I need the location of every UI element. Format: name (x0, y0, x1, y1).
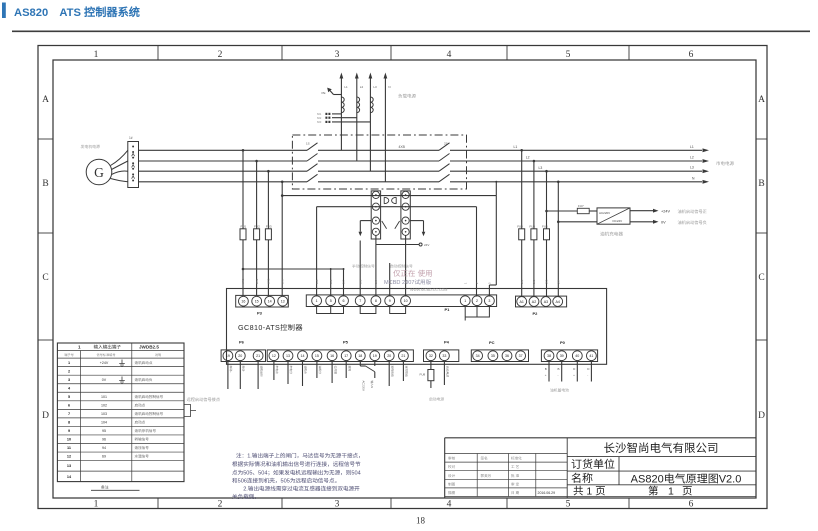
svg-text:-: - (587, 373, 588, 377)
wire coil rail 2 (317, 206, 477, 208)
svg-text:L2: L2 (690, 155, 694, 160)
svg-text:103: 103 (101, 412, 107, 417)
svg-text:39: 39 (560, 354, 564, 359)
svg-text:转输信号: 转输信号 (135, 437, 150, 443)
svg-text:B: B (758, 179, 764, 189)
svg-text:13: 13 (286, 354, 290, 359)
svg-text:32: 32 (429, 354, 433, 359)
converter U1 AC/DC (597, 208, 630, 224)
contactor KM1 terminal block (371, 191, 380, 239)
svg-text:6: 6 (68, 403, 70, 408)
wire gen L1 aux tap (243, 268, 344, 270)
svg-text:手动控制信号: 手动控制信号 (352, 264, 375, 270)
svg-text:AC220V: AC220V (362, 381, 366, 392)
svg-text:日 期: 日 期 (511, 491, 520, 496)
svg-text:A1: A1 (519, 300, 523, 305)
svg-text:96: 96 (102, 438, 106, 443)
wire mains bus to right arrows (450, 149, 702, 151)
wire mains neutral drop (557, 182, 559, 297)
PE arrow top-left (334, 94, 342, 96)
svg-text:GC810-ATS控制器: GC810-ATS控制器 (238, 323, 303, 333)
svg-text:36: 36 (505, 354, 509, 359)
wire N to P1-3' (495, 196, 497, 285)
svg-text:18: 18 (416, 516, 426, 526)
svg-text:7: 7 (68, 412, 70, 417)
svg-text:4XB: 4XB (399, 144, 406, 149)
svg-text:106: 106 (329, 279, 333, 284)
fuse FU8 (428, 370, 434, 381)
svg-text:端子号: 端子号 (64, 352, 74, 357)
svg-text:工 艺: 工 艺 (511, 464, 520, 470)
wire P0 outputs (548, 362, 550, 382)
svg-text:2016.06.29: 2016.06.29 (538, 491, 556, 496)
inductor coils (CT) on feeder (341, 97, 344, 113)
wire KM1 left tap with arrow (360, 220, 371, 222)
wire to P1-8 (375, 245, 377, 297)
svg-text:市电合: 市电合 (275, 366, 279, 375)
arrow feeder up (369, 73, 373, 79)
terminal strip P5 (267, 350, 413, 362)
svg-text:12: 12 (272, 354, 276, 359)
arrow feeder up (384, 73, 388, 79)
svg-text:FU1: FU1 (241, 224, 247, 228)
switch QS2 blades (mains side) (439, 143, 450, 151)
svg-text:40: 40 (575, 354, 579, 359)
svg-text:A4: A4 (555, 300, 559, 305)
svg-text:A3: A3 (544, 300, 548, 305)
svg-text:共 1 页: 共 1 页 (573, 484, 606, 499)
svg-text:102: 102 (101, 403, 107, 408)
svg-text:FU4: FU4 (517, 224, 523, 228)
svg-text:38: 38 (547, 354, 551, 359)
svg-text:10: 10 (404, 299, 408, 304)
svg-text:33: 33 (442, 354, 446, 359)
svg-text:JWDB2.5: JWDB2.5 (139, 345, 159, 351)
svg-text:6: 6 (689, 499, 694, 509)
svg-text:-: - (558, 373, 559, 377)
svg-text:94: 94 (102, 446, 106, 451)
svg-text:L2: L2 (526, 155, 530, 160)
fuse FU1 (240, 229, 246, 240)
svg-text:制图: 制图 (448, 482, 456, 487)
svg-text:109: 109 (374, 279, 378, 284)
svg-text:AC220V: AC220V (599, 211, 610, 215)
svg-text:105: 105 (315, 279, 319, 284)
svg-text:油机启动控制信号: 油机启动控制信号 (135, 411, 164, 417)
svg-text:9: 9 (68, 429, 70, 434)
svg-text:19: 19 (226, 354, 230, 359)
svg-text:WWW.MCBD-CC.COM: WWW.MCBD-CC.COM (410, 288, 447, 293)
svg-text:油机启动负: 油机启动负 (135, 377, 153, 383)
wire CT secondary taps (332, 113, 341, 115)
svg-text:PC: PC (489, 340, 495, 346)
ground symbol rows 1-2 (119, 360, 125, 367)
svg-text:11: 11 (67, 446, 71, 451)
wire charger 0V output (630, 221, 653, 223)
svg-text:P3: P3 (257, 310, 263, 316)
svg-text:L1: L1 (344, 85, 348, 89)
node charger L tap (545, 210, 548, 213)
coil KM2 (392, 197, 397, 203)
wire to terminal P1-1 (316, 207, 318, 297)
svg-text:A: A (42, 95, 49, 105)
svg-text:批 准: 批 准 (511, 473, 520, 479)
svg-text:PE: PE (322, 91, 326, 95)
svg-text:故障: 故障 (347, 366, 351, 372)
svg-text:C: C (758, 273, 764, 283)
svg-text:1: 1 (94, 50, 99, 60)
wire to P1-7 (359, 241, 361, 297)
svg-text:1: 1 (68, 361, 70, 366)
wire charger L input (547, 210, 578, 212)
svg-text:油机合: 油机合 (304, 366, 308, 375)
svg-text:油机启动信号负: 油机启动信号负 (678, 220, 707, 226)
wire to P1-10 (405, 245, 407, 297)
svg-text:水温信号: 水温信号 (135, 454, 150, 460)
fuse FU7 (577, 208, 589, 213)
wire P6 outputs (227, 362, 229, 390)
svg-text:6: 6 (689, 50, 694, 60)
svg-text:2: 2 (218, 50, 223, 60)
wire contactor bottom link (375, 235, 377, 244)
svg-text:5: 5 (68, 395, 70, 400)
svg-text:2: 2 (218, 499, 223, 509)
svg-text:L3: L3 (690, 165, 694, 170)
svg-text:P4: P4 (444, 340, 450, 346)
terminal strip P4 (424, 350, 459, 362)
svg-text:L1: L1 (690, 144, 694, 149)
svg-text:202: 202 (532, 279, 536, 284)
svg-text:B: B (558, 367, 560, 371)
wire jumper P1 7-8 (360, 306, 376, 314)
svg-text:消防联动: 消防联动 (405, 366, 409, 377)
svg-text:B: B (545, 367, 547, 371)
svg-text:油机运行: 油机运行 (259, 366, 263, 377)
auxiliary contact KM2 (395, 221, 400, 229)
svg-text:+24V: +24V (661, 210, 670, 215)
wire gen neutral drop (281, 182, 283, 296)
wire coil rail (N) (282, 195, 496, 197)
svg-text:油机启动控制信号: 油机启动控制信号 (135, 394, 164, 400)
svg-text:输入输出端子: 输入输出端子 (94, 345, 122, 351)
header blue bar (2, 3, 6, 19)
wire generator leads (111, 150, 128, 165)
controller GC810-ATS box (227, 289, 607, 365)
fuse FU4 (519, 229, 525, 240)
svg-text:W03: W03 (267, 278, 271, 284)
svg-text:203: 203 (545, 279, 549, 284)
svg-text:8: 8 (68, 421, 70, 426)
svg-text:+24V: +24V (100, 361, 109, 366)
svg-text:L3: L3 (539, 165, 543, 170)
svg-text:FU6: FU6 (542, 224, 548, 228)
auxiliary contact KM1 (382, 221, 387, 229)
svg-text:D: D (758, 411, 765, 421)
svg-text:W04: W04 (280, 278, 284, 284)
svg-text:14: 14 (301, 354, 305, 359)
wire load feeder risers (340, 78, 342, 150)
svg-text:信号标准编号: 信号标准编号 (96, 352, 115, 357)
svg-text:37: 37 (519, 354, 523, 359)
wire charger N input (558, 221, 597, 223)
svg-text:7: 7 (359, 299, 361, 304)
svg-text:9: 9 (389, 299, 391, 304)
svg-text:注：1.输出端子上的闸门，马达信号为无源干接点，: 注：1.输出端子上的闸门，马达信号为无源干接点， (236, 452, 364, 460)
generator G1 (86, 159, 112, 185)
svg-text:发电机电源: 发电机电源 (81, 144, 101, 150)
wire mains phase drops to fuses FU4-FU6 (521, 150, 523, 229)
svg-text:P1: P1 (445, 307, 451, 313)
svg-text:启动电源: 启动电源 (446, 366, 450, 377)
wire KM2 right tap with arrow (410, 220, 423, 222)
svg-text:市电分: 市电分 (289, 366, 293, 375)
svg-text:+: + (545, 373, 547, 377)
terminal strip P0 (541, 350, 597, 362)
svg-text:34: 34 (476, 354, 480, 359)
svg-text:603: 603 (317, 120, 322, 124)
svg-text:油机充电器: 油机充电器 (600, 232, 623, 238)
svg-text:19: 19 (373, 354, 377, 359)
I/O terminal table (57, 343, 184, 482)
svg-text:5: 5 (566, 499, 571, 509)
svg-text:FU5: FU5 (529, 224, 535, 228)
ATS changeover switch enclosure (dash-dot) (292, 135, 466, 189)
svg-text:油机蓄电池: 油机蓄电池 (550, 388, 569, 394)
svg-text:D: D (42, 411, 49, 421)
svg-text:0V: 0V (102, 378, 107, 383)
switch QS1 blades (gen side) (307, 143, 318, 151)
svg-text:41: 41 (589, 354, 593, 359)
coil KM1 (384, 197, 389, 203)
svg-text:L2: L2 (360, 85, 364, 89)
svg-text:签名: 签名 (481, 456, 489, 462)
svg-text:16: 16 (330, 354, 334, 359)
svg-text:101: 101 (101, 395, 107, 400)
wire P5 outputs (273, 362, 275, 381)
svg-text:P2: P2 (533, 311, 539, 317)
svg-text:1: 1 (464, 299, 466, 304)
svg-text:审核: 审核 (448, 456, 456, 462)
svg-text:L1: L1 (514, 144, 518, 149)
fuse FU5 (531, 229, 537, 240)
svg-text:长沙智尚电气有限公司: 长沙智尚电气有限公司 (604, 440, 719, 456)
svg-text:油机启动点: 油机启动点 (135, 360, 153, 366)
contactor KM2 terminal block (401, 191, 410, 239)
svg-text:4: 4 (447, 499, 452, 509)
svg-text:描图: 描图 (448, 490, 456, 496)
svg-text:201: 201 (520, 279, 524, 284)
wire charger +24V output (630, 210, 653, 212)
svg-text:根据实际情况和油机输出信号进行连接，远程信号节: 根据实际情况和油机输出信号进行连接，远程信号节 (232, 460, 361, 468)
svg-text:点为505、504；如果发电机远程输出为无源，则504: 点为505、504；如果发电机远程输出为无源，则504 (232, 468, 361, 476)
svg-text:远程启动信号接点: 远程启动信号接点 (187, 397, 221, 403)
svg-text:16: 16 (241, 300, 245, 305)
svg-text:13: 13 (281, 300, 285, 305)
wire P4 output with fuse FU8 (430, 362, 432, 370)
svg-text:5: 5 (330, 299, 332, 304)
svg-text:DC24V: DC24V (613, 219, 623, 223)
svg-text:关负载侧。: 关负载侧。 (232, 492, 260, 500)
node gen N / coil rail (281, 194, 284, 197)
svg-text:1#: 1# (129, 135, 133, 140)
svg-text:14: 14 (268, 300, 272, 305)
svg-text:油机分: 油机分 (318, 366, 322, 375)
svg-text:2: 2 (476, 299, 478, 304)
wire gen phase drops to fuses FU1-FU3 (242, 150, 244, 229)
svg-text:13: 13 (67, 464, 71, 469)
ground symbol rows 3-4 (119, 377, 125, 384)
svg-text:启动-: 启动- (242, 366, 246, 373)
svg-text:1: 1 (668, 484, 674, 499)
svg-text:W01: W01 (241, 278, 245, 284)
svg-text:FU2: FU2 (254, 224, 260, 228)
svg-text:负载电源: 负载电源 (398, 94, 416, 100)
svg-text:+: + (573, 373, 575, 377)
svg-text:20: 20 (387, 354, 391, 359)
svg-text:P5: P5 (343, 340, 349, 346)
arrow feeder up (355, 73, 359, 79)
svg-text:第: 第 (648, 484, 659, 499)
svg-text:107: 107 (342, 279, 346, 284)
svg-text:市电电源: 市电电源 (716, 161, 734, 167)
svg-text:6: 6 (343, 299, 345, 304)
svg-text:设计: 设计 (448, 474, 456, 479)
svg-text:G: G (94, 165, 104, 180)
svg-text:标准化: 标准化 (511, 456, 522, 462)
fuse FU3 (265, 229, 271, 240)
svg-text:页: 页 (682, 484, 693, 499)
svg-text:A: A (758, 95, 765, 105)
svg-text:204: 204 (557, 279, 561, 284)
svg-text:A2: A2 (532, 300, 536, 305)
svg-text:L3: L3 (373, 85, 377, 89)
svg-text:17: 17 (344, 354, 348, 359)
svg-text:启动电源: 启动电源 (429, 397, 444, 403)
wire jumper P1 1-6 (317, 306, 344, 314)
node gen taps (242, 149, 245, 152)
svg-text:FU8: FU8 (420, 373, 426, 377)
node mains taps (520, 149, 523, 152)
terminal strip P2 (516, 296, 567, 307)
svg-text:P0: P0 (560, 340, 566, 346)
svg-text:N: N (388, 85, 390, 89)
title block (444, 438, 446, 498)
svg-text:FU3: FU3 (266, 224, 272, 228)
svg-text:油压信号: 油压信号 (135, 445, 150, 451)
svg-text:校对: 校对 (448, 464, 456, 470)
svg-text:审 定: 审 定 (511, 481, 520, 487)
svg-text:2S: 2S (444, 142, 448, 146)
svg-text:18: 18 (358, 354, 362, 359)
terminal strip P6 (221, 350, 265, 362)
svg-text:MCBD 2007试用版: MCBD 2007试用版 (384, 278, 432, 286)
svg-text:W02: W02 (255, 278, 259, 284)
svg-text:21: 21 (401, 354, 405, 359)
wire generator bus L1 L2 L3 N (139, 149, 308, 151)
svg-text:12: 12 (67, 455, 71, 460)
svg-text:启动点: 启动点 (135, 420, 146, 426)
svg-text:104: 104 (101, 421, 107, 426)
terminal strip PC (471, 350, 528, 362)
terminal strip P3 (236, 295, 289, 307)
svg-text:油机启动信号正: 油机启动信号正 (678, 209, 707, 215)
svg-text:郭美芳: 郭美芳 (481, 473, 492, 479)
wire jumper P1 9-10 (390, 306, 406, 314)
svg-text:95: 95 (102, 429, 106, 434)
svg-text:8: 8 (375, 299, 377, 304)
svg-text:启动点: 启动点 (135, 402, 146, 408)
svg-text:20: 20 (238, 354, 242, 359)
svg-text:15: 15 (255, 300, 259, 305)
svg-text:21: 21 (256, 354, 260, 359)
svg-text:3: 3 (335, 50, 340, 60)
svg-text:3: 3 (335, 499, 340, 509)
svg-text:备注: 备注 (101, 484, 109, 490)
svg-text:0V: 0V (661, 221, 666, 226)
svg-text:C: C (42, 273, 48, 283)
svg-text:3: 3 (68, 378, 70, 383)
svg-text:和506连接到机壳，505为远程启动信号点。: 和506连接到机壳，505为远程启动信号点。 (232, 477, 340, 485)
svg-text:69: 69 (102, 455, 106, 460)
svg-text:油机停机信号: 油机停机信号 (135, 428, 157, 434)
svg-text:FU7: FU7 (578, 204, 584, 208)
wire to P1-9 (389, 263, 391, 296)
svg-text:AS820 ATS 控制器系统: AS820 ATS 控制器系统 (14, 4, 140, 20)
svg-text:10: 10 (67, 438, 71, 443)
svg-text:输入N: 输入N (370, 381, 374, 389)
svg-text:说明: 说明 (155, 352, 161, 357)
terminal strip P1 (306, 295, 496, 307)
svg-text:启动+: 启动+ (229, 366, 233, 374)
svg-text:4: 4 (447, 50, 452, 60)
svg-text:1S: 1S (306, 142, 310, 146)
svg-text:公共端: 公共端 (333, 366, 337, 375)
svg-text:1: 1 (94, 499, 99, 509)
svg-text:2: 2 (68, 369, 70, 374)
svg-text:15: 15 (315, 354, 319, 359)
svg-text:3: 3 (488, 299, 490, 304)
fuse FU6 (544, 229, 550, 240)
wire to terminal P1-2' (476, 207, 478, 297)
svg-text:5: 5 (566, 50, 571, 60)
svg-text:1: 1 (78, 345, 81, 351)
inner border frame (53, 60, 756, 498)
node charger N tap (557, 221, 560, 224)
svg-text:35: 35 (491, 354, 495, 359)
svg-text:108: 108 (358, 279, 362, 284)
outer border frame (38, 46, 767, 509)
arrow feeder up (340, 73, 344, 79)
header rule (12, 30, 810, 32)
node 24V terminal (419, 243, 422, 246)
wire jumper P1 1'-3' (465, 306, 489, 321)
svg-text:远程启动: 远程启动 (390, 366, 394, 377)
svg-text:1: 1 (316, 299, 318, 304)
contact S1 between P5-18/19 (359, 362, 361, 367)
terminal strip XT1 (128, 142, 139, 188)
svg-text:P6: P6 (239, 340, 245, 346)
fuse FU2 (254, 229, 260, 240)
svg-text:B: B (42, 179, 48, 189)
svg-text:24V: 24V (424, 243, 429, 247)
